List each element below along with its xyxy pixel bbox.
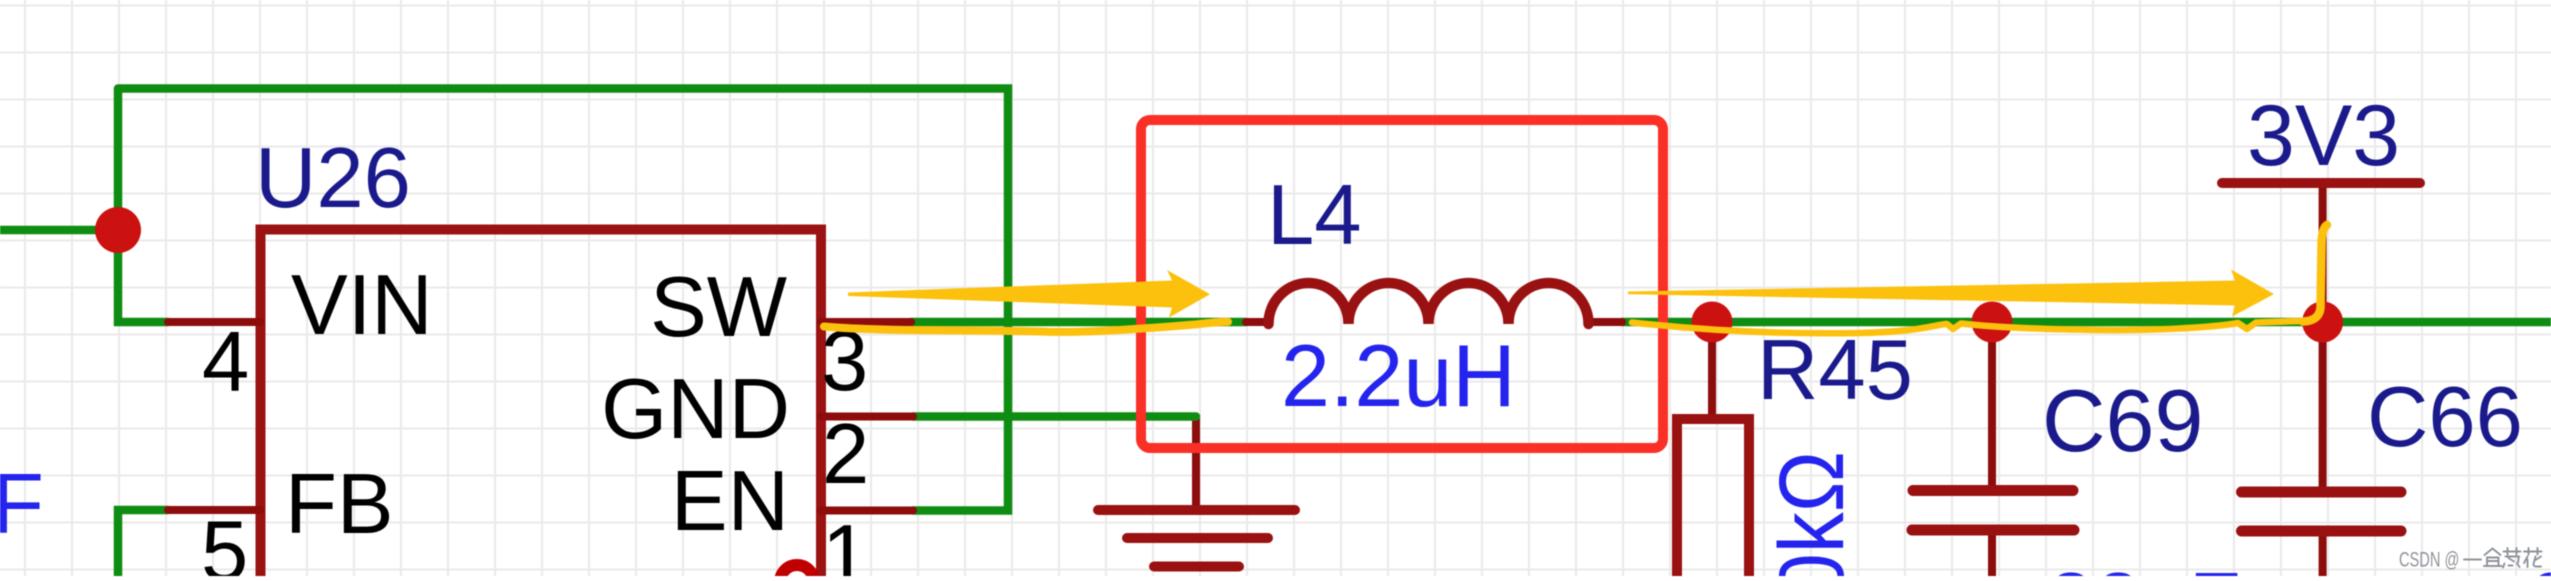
svg-text:SW: SW <box>650 260 787 355</box>
svg-text:F: F <box>0 457 44 552</box>
svg-text:EN: EN <box>671 454 789 549</box>
svg-text:C66: C66 <box>2367 370 2523 465</box>
svg-text:U26: U26 <box>255 131 411 226</box>
svg-text:VIN: VIN <box>291 258 433 353</box>
svg-text:100kΩ: 100kΩ <box>1761 451 1863 576</box>
svg-text:L4: L4 <box>1267 168 1362 263</box>
svg-text:5: 5 <box>201 504 248 576</box>
svg-text:FB: FB <box>285 457 394 552</box>
svg-text:3V3: 3V3 <box>2247 88 2400 184</box>
svg-text:CSDN @: CSDN @ <box>2399 547 2459 572</box>
svg-text:22uF: 22uF <box>2047 556 2241 576</box>
svg-text:2: 2 <box>822 407 869 502</box>
svg-text:2.2uH: 2.2uH <box>1281 326 1516 425</box>
svg-text:4: 4 <box>202 315 249 410</box>
svg-text:1: 1 <box>822 508 869 576</box>
svg-text:C69: C69 <box>2042 371 2203 470</box>
svg-text:GND: GND <box>601 362 790 457</box>
svg-text:R45: R45 <box>1757 323 1913 418</box>
